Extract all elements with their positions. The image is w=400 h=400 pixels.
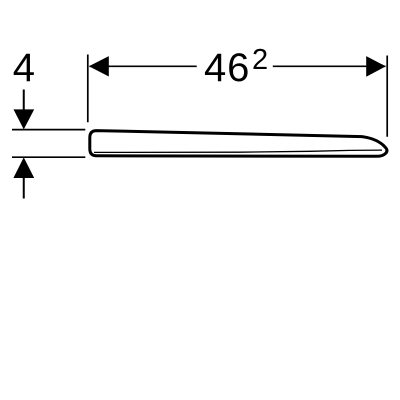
- left arrowhead of 46 dimension: [89, 56, 109, 76]
- wire: left extension line of 46 dimension: [87, 55, 89, 123]
- lid outline (side profile of seat lid): [90, 131, 387, 157]
- lower arrowhead of 4 dimension: [13, 157, 34, 178]
- svg-text:46: 46: [204, 46, 250, 90]
- right arrowhead of 46 dimension: [366, 56, 386, 77]
- wire: lower extension line of 4 dimension: [12, 156, 85, 158]
- svg-text:2: 2: [252, 44, 268, 76]
- wire: top dimension line left segment: [90, 65, 197, 67]
- wire: upper extension line of 4 dimension: [12, 129, 85, 131]
- svg-text:4: 4: [13, 46, 35, 90]
- wire: lower arrow tail of 4 dimension: [23, 177, 25, 199]
- lid inner seam line: [94, 150, 382, 152]
- upper arrowhead of 4 dimension: [14, 109, 35, 129]
- wire: top dimension line right segment: [273, 65, 386, 67]
- wire: upper arrow tail of 4 dimension: [23, 90, 25, 112]
- wire: right extension line of 46 dimension: [386, 56, 388, 137]
